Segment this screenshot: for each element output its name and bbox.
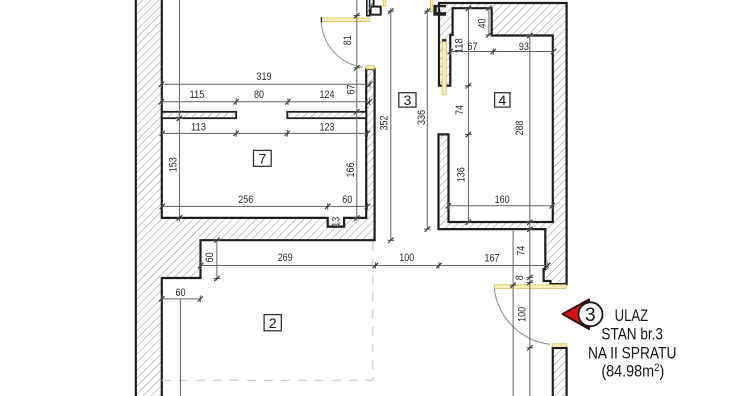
svg-text:100: 100	[516, 307, 528, 322]
svg-text:3: 3	[585, 305, 596, 326]
dim col 118/74/136	[467, 8, 469, 222]
svg-text:13: 13	[331, 217, 343, 227]
room 4 label box	[495, 93, 510, 107]
dim col entrance aux	[512, 229, 514, 396]
svg-text:67: 67	[346, 85, 358, 95]
pillar top corridor left	[367, 0, 381, 16]
entrance lower stub yellow cap	[552, 344, 566, 348]
svg-text:136: 136	[456, 167, 468, 182]
svg-text:288: 288	[514, 121, 526, 136]
dim row 115/80/124	[162, 101, 370, 103]
svg-text:123: 123	[320, 121, 335, 133]
dim col 60 step	[216, 240, 218, 281]
svg-text:166: 166	[345, 163, 357, 178]
svg-text:67: 67	[468, 41, 478, 53]
wall partition room7 right segment	[287, 112, 366, 118]
dim col 81/67/166	[356, 0, 358, 221]
wall right complex room4	[439, 3, 567, 284]
room 3 label box	[399, 93, 416, 107]
svg-text:256: 256	[238, 194, 253, 206]
entrance arrow (red)	[563, 300, 590, 330]
svg-text:118: 118	[454, 38, 466, 53]
room 2 label box	[264, 315, 281, 331]
svg-text:60: 60	[176, 287, 186, 299]
svg-text:8: 8	[514, 275, 526, 280]
svg-text:319: 319	[257, 71, 272, 83]
dim row 160	[449, 205, 553, 207]
wall jamb top corridor right	[433, 5, 446, 16]
svg-text:167: 167	[485, 253, 500, 265]
svg-text:80: 80	[254, 89, 264, 101]
dim row 319	[162, 83, 371, 85]
dim row 256/60	[162, 205, 367, 207]
svg-text:3: 3	[403, 93, 411, 109]
dim row 67/93	[450, 51, 553, 53]
svg-text:160: 160	[495, 194, 510, 206]
dim col 153	[178, 0, 180, 222]
wall partition room7 left segment	[162, 112, 236, 118]
dim row 60 lower left	[162, 298, 201, 300]
svg-text:2: 2	[269, 316, 277, 332]
dim col 352	[390, 8, 392, 240]
wall outer left mass	[136, 0, 375, 396]
svg-text:100: 100	[399, 252, 414, 264]
entrance door arc	[494, 288, 550, 344]
svg-text:ULAZ: ULAZ	[615, 307, 649, 325]
dim row 269/100/167	[201, 265, 548, 267]
svg-text:115: 115	[190, 89, 205, 101]
dim col 40	[488, 8, 490, 35]
dimension ticks	[161, 81, 163, 88]
entrance door sill	[494, 285, 566, 289]
door 81 arc	[321, 23, 362, 68]
entrance marker circle 3	[579, 302, 603, 326]
svg-text:336: 336	[416, 110, 428, 125]
dashed room2 boundary horizontal	[162, 379, 373, 381]
svg-text:81: 81	[342, 35, 354, 45]
door 81 leaf	[321, 18, 369, 22]
svg-text:124: 124	[320, 89, 335, 101]
svg-text:93: 93	[519, 41, 529, 53]
svg-text:60: 60	[342, 194, 352, 206]
room 7 label box	[254, 150, 272, 166]
svg-text:4: 4	[498, 93, 506, 109]
svg-text:40: 40	[477, 19, 489, 29]
yellow jamb top corridor right	[431, 0, 434, 12]
svg-text:60: 60	[204, 252, 216, 262]
svg-text:7: 7	[258, 151, 266, 167]
dim col 288/74/8/100	[529, 36, 531, 396]
dim row 113/123	[162, 132, 367, 134]
dim col lower left extension	[179, 299, 181, 396]
entrance lower stub wall	[553, 348, 567, 396]
svg-text:NA II SPRATU: NA II SPRATU	[588, 345, 676, 363]
svg-text:352: 352	[378, 116, 390, 131]
svg-text:74: 74	[454, 105, 466, 115]
dim col 336	[426, 8, 428, 229]
svg-text:113: 113	[191, 121, 206, 133]
yellow jamb right of pillar	[383, 0, 386, 6]
svg-text:STAN br.3: STAN br.3	[601, 326, 663, 344]
svg-text:269: 269	[278, 252, 293, 264]
dashed room2 boundary vertical	[372, 242, 374, 381]
corridor wall top yellow cap	[366, 66, 374, 69]
svg-text:74: 74	[516, 246, 528, 256]
svg-text:153: 153	[168, 157, 180, 172]
sliding door leaf room4	[442, 39, 446, 95]
